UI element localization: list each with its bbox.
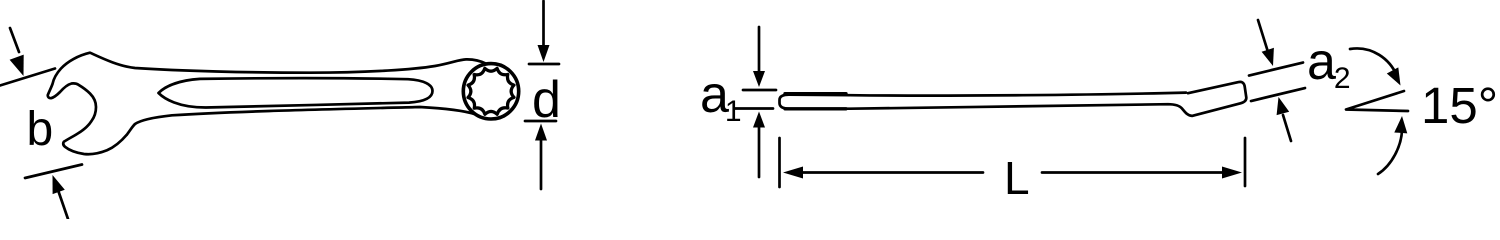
b dim lower tick: [25, 165, 82, 179]
15deg wedge: [1346, 91, 1408, 111]
ring end outer circle: [463, 64, 518, 119]
a2 dim upper tick: [1249, 63, 1303, 76]
svg-text:b: b: [27, 103, 54, 156]
L dim left tick: [778, 138, 781, 187]
a1 dim lower tick: [735, 107, 773, 110]
a2 dim lower arrow: [1283, 115, 1291, 141]
shaft slot panel: [159, 78, 433, 107]
a1 dim down arrow: [758, 27, 761, 72]
svg-text:L: L: [1004, 152, 1030, 204]
d dim top line+arrow: [542, 1, 545, 47]
ring 12-point spline: [468, 68, 514, 114]
L dim left arrow: [800, 171, 983, 174]
L dim right tick: [1244, 138, 1247, 186]
svg-text:15°: 15°: [1421, 77, 1498, 134]
side-view heavy chamfer lines: [785, 92, 846, 95]
a2 dim upper arrow: [1258, 20, 1268, 52]
b dim upper arrow: [10, 28, 19, 52]
d dim top tick: [529, 63, 559, 66]
wrench top-view outline: [48, 53, 487, 155]
a2 dim lower tick: [1251, 88, 1305, 101]
d dim bottom tick: [525, 120, 556, 123]
b dim upper tick: [0, 69, 55, 86]
15deg bottom curved arrow: [1378, 130, 1402, 174]
a1 dim up arrow: [758, 126, 761, 177]
d dim bottom line+arrow: [540, 138, 543, 189]
wrench side-view outline: [780, 82, 1247, 116]
svg-text:d: d: [532, 71, 561, 129]
a1 dim upper tick: [743, 89, 776, 92]
15deg top curved arrow: [1350, 48, 1397, 76]
b dim lower arrow: [58, 190, 68, 219]
L dim right arrow: [1042, 171, 1226, 174]
